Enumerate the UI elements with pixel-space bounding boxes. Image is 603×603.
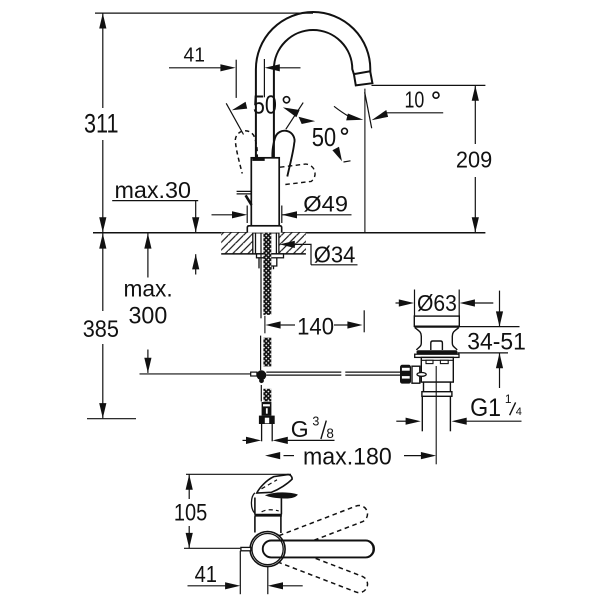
svg-text:311: 311 <box>84 108 119 138</box>
base flange <box>247 226 281 233</box>
drain pin <box>431 341 443 350</box>
50 right lobe axis line <box>286 103 303 130</box>
dia63 extension ticks <box>414 290 416 317</box>
41 bottom tick right (centerline) <box>267 567 269 595</box>
dia63 left arrow <box>396 302 401 304</box>
horizontal pop-up rod left segment <box>266 372 341 375</box>
body walls below band <box>255 516 281 533</box>
threaded shank walls <box>255 233 257 254</box>
counter hatched block right <box>279 233 306 254</box>
drain plug head <box>414 316 459 326</box>
aerator <box>354 71 373 85</box>
drain seal (thick dark band) <box>417 350 458 354</box>
dashed swivel position up <box>279 503 370 551</box>
34-51 vertical dimension <box>499 291 501 327</box>
hidden dashed arc inside body <box>262 510 279 512</box>
svg-text:max.180: max.180 <box>303 444 392 471</box>
dimension 311 vertical line <box>102 13 104 108</box>
left bulge outline <box>251 493 254 513</box>
385 up arrow <box>99 233 106 248</box>
10 degree right arrow with tail <box>372 110 389 120</box>
top reference line (spout top level) <box>95 12 313 14</box>
svg-text:8: 8 <box>326 426 334 441</box>
svg-text:50: 50 <box>253 91 277 119</box>
max.30 dimension line lower <box>195 254 197 274</box>
dimension 385 vertical line <box>102 233 104 311</box>
label G1 1/4 <box>470 392 522 422</box>
mounting washer <box>257 254 284 258</box>
105 top reference line <box>186 473 291 475</box>
34-51 bottom extension line <box>458 352 509 354</box>
max.30 underline <box>112 200 198 202</box>
drain centerline <box>435 366 437 464</box>
label G 3/8 <box>291 414 334 442</box>
drain knurled knob <box>400 365 411 384</box>
swivel ring outer <box>250 532 285 567</box>
spout end inner arc <box>368 541 373 556</box>
drain gland <box>412 366 420 383</box>
lever handle (side, solid) <box>237 191 252 194</box>
svg-text:41: 41 <box>184 44 205 67</box>
pop-up rod reference line (left) <box>140 373 251 375</box>
dimension 105 vertical <box>188 475 190 500</box>
dimension 209 vertical line <box>474 86 476 144</box>
10 degree vertical line from outlet <box>364 89 366 233</box>
side tab <box>241 547 251 550</box>
svg-text:4: 4 <box>516 406 522 418</box>
counter hatched block left <box>221 233 253 254</box>
G3/8 dimension arrows <box>243 439 249 441</box>
supply hose segment 2 <box>260 336 262 371</box>
dia34 leader elbow <box>294 244 311 264</box>
41 bottom dimension right <box>282 585 303 587</box>
svg-text:Ø63: Ø63 <box>417 290 457 316</box>
dimension max.300 vertical line <box>147 233 149 277</box>
drain tailpipe <box>421 396 423 431</box>
50 right bowtie arrows <box>283 107 300 117</box>
dashed swivel position down <box>279 547 370 595</box>
dia49 left arrow <box>212 214 234 216</box>
drain seat lip <box>415 354 459 357</box>
svg-text:10: 10 <box>405 87 425 113</box>
drain lower section <box>424 382 451 392</box>
svg-text:300: 300 <box>129 303 168 330</box>
41 bottom tick left <box>239 551 241 594</box>
svg-text:1: 1 <box>505 392 512 406</box>
svg-text:Ø34: Ø34 <box>314 241 356 267</box>
svg-text:G: G <box>291 416 309 442</box>
lever (top view) <box>257 475 292 493</box>
G3/8 nut <box>259 416 275 424</box>
body top thick mark <box>252 158 264 161</box>
svg-text:34-51: 34-51 <box>467 328 526 355</box>
311 down arrow <box>99 217 106 232</box>
head body column <box>255 498 282 515</box>
hole walls <box>252 233 254 254</box>
hose centerline tick <box>264 316 266 334</box>
dia49 ticks <box>246 206 248 224</box>
spout arch inner <box>274 30 354 158</box>
floor reference line (385 bottom) <box>87 418 136 420</box>
drain waist bell <box>415 328 459 350</box>
41 dimension line left with right arrow <box>169 67 222 69</box>
supply hose segment 3 <box>260 385 262 402</box>
max300 up arrow <box>144 233 151 248</box>
105 bottom reference line <box>184 547 240 549</box>
50 left lobe axis line <box>226 103 243 134</box>
supply hose segment 1 <box>260 233 262 319</box>
spout arch outer <box>256 12 370 158</box>
svg-text:385: 385 <box>83 316 119 343</box>
G3/8 pipe tail <box>261 424 263 441</box>
dashed lever lobe horizontal <box>280 164 315 185</box>
209 top reference line (outlet level) <box>372 84 486 86</box>
counter top surface line <box>93 232 485 234</box>
lever hidden dash <box>262 480 278 489</box>
140 right tick (outlet axis) <box>363 310 365 332</box>
311 up arrow <box>99 13 106 28</box>
10 degree slanted flow line <box>365 92 372 128</box>
head body thick band <box>254 514 282 517</box>
max.30 dimension line upper <box>195 201 197 233</box>
10 degree left arc with arrow <box>334 106 349 116</box>
mounting nut <box>259 258 277 270</box>
dimension 140 <box>265 321 280 328</box>
horizontal pop-up rod right segment <box>345 372 400 375</box>
svg-text:50: 50 <box>312 124 337 152</box>
41 bottom dimension left <box>188 585 228 587</box>
dashed lever lobe left <box>235 131 257 174</box>
max.180 dimension right arrow <box>404 455 421 457</box>
svg-text:G1: G1 <box>470 394 501 422</box>
dia49 underline / right arrow <box>282 214 352 216</box>
50 right lower arrow <box>332 147 342 162</box>
max.180 dimension left arrow <box>284 455 295 457</box>
41 tick right (faucet centerline) <box>263 59 265 97</box>
dia34 underline <box>311 264 358 266</box>
41 tick left <box>235 60 237 98</box>
faucet body <box>251 158 279 226</box>
drain ball ellipse <box>417 373 426 377</box>
34-51 top extension line <box>459 326 519 328</box>
rod clamp <box>251 372 257 376</box>
385 down arrow <box>99 403 106 418</box>
counter bottom line <box>221 253 306 255</box>
41 dimension line right with left arrow <box>279 67 301 69</box>
svg-text:105: 105 <box>174 500 207 527</box>
spout (top view, solid) white fill occluder <box>263 541 374 558</box>
max300 down arrow <box>144 358 151 373</box>
G1 1/4 dimension left arrow <box>396 420 406 422</box>
svg-text:max.: max. <box>124 276 173 302</box>
dia63 right arrow <box>474 302 493 304</box>
svg-text:Ø49: Ø49 <box>303 192 348 217</box>
hose ferrule <box>262 402 272 416</box>
svg-text:3: 3 <box>312 414 319 428</box>
drain body <box>421 357 453 382</box>
lever cap crescent <box>265 492 298 498</box>
svg-text:209: 209 <box>456 147 492 173</box>
svg-text:140: 140 <box>297 313 334 340</box>
swivel ring inner <box>252 534 283 565</box>
pivot ball <box>257 370 267 380</box>
G1 1/4 dimension right arrow and underline <box>466 420 522 422</box>
solid lever lobe right <box>272 131 294 177</box>
drain collar <box>422 392 452 397</box>
svg-text:41: 41 <box>195 561 217 587</box>
50 left arrow <box>232 102 247 111</box>
G3/8 underline <box>277 439 335 441</box>
svg-text:max.30: max.30 <box>115 177 192 203</box>
